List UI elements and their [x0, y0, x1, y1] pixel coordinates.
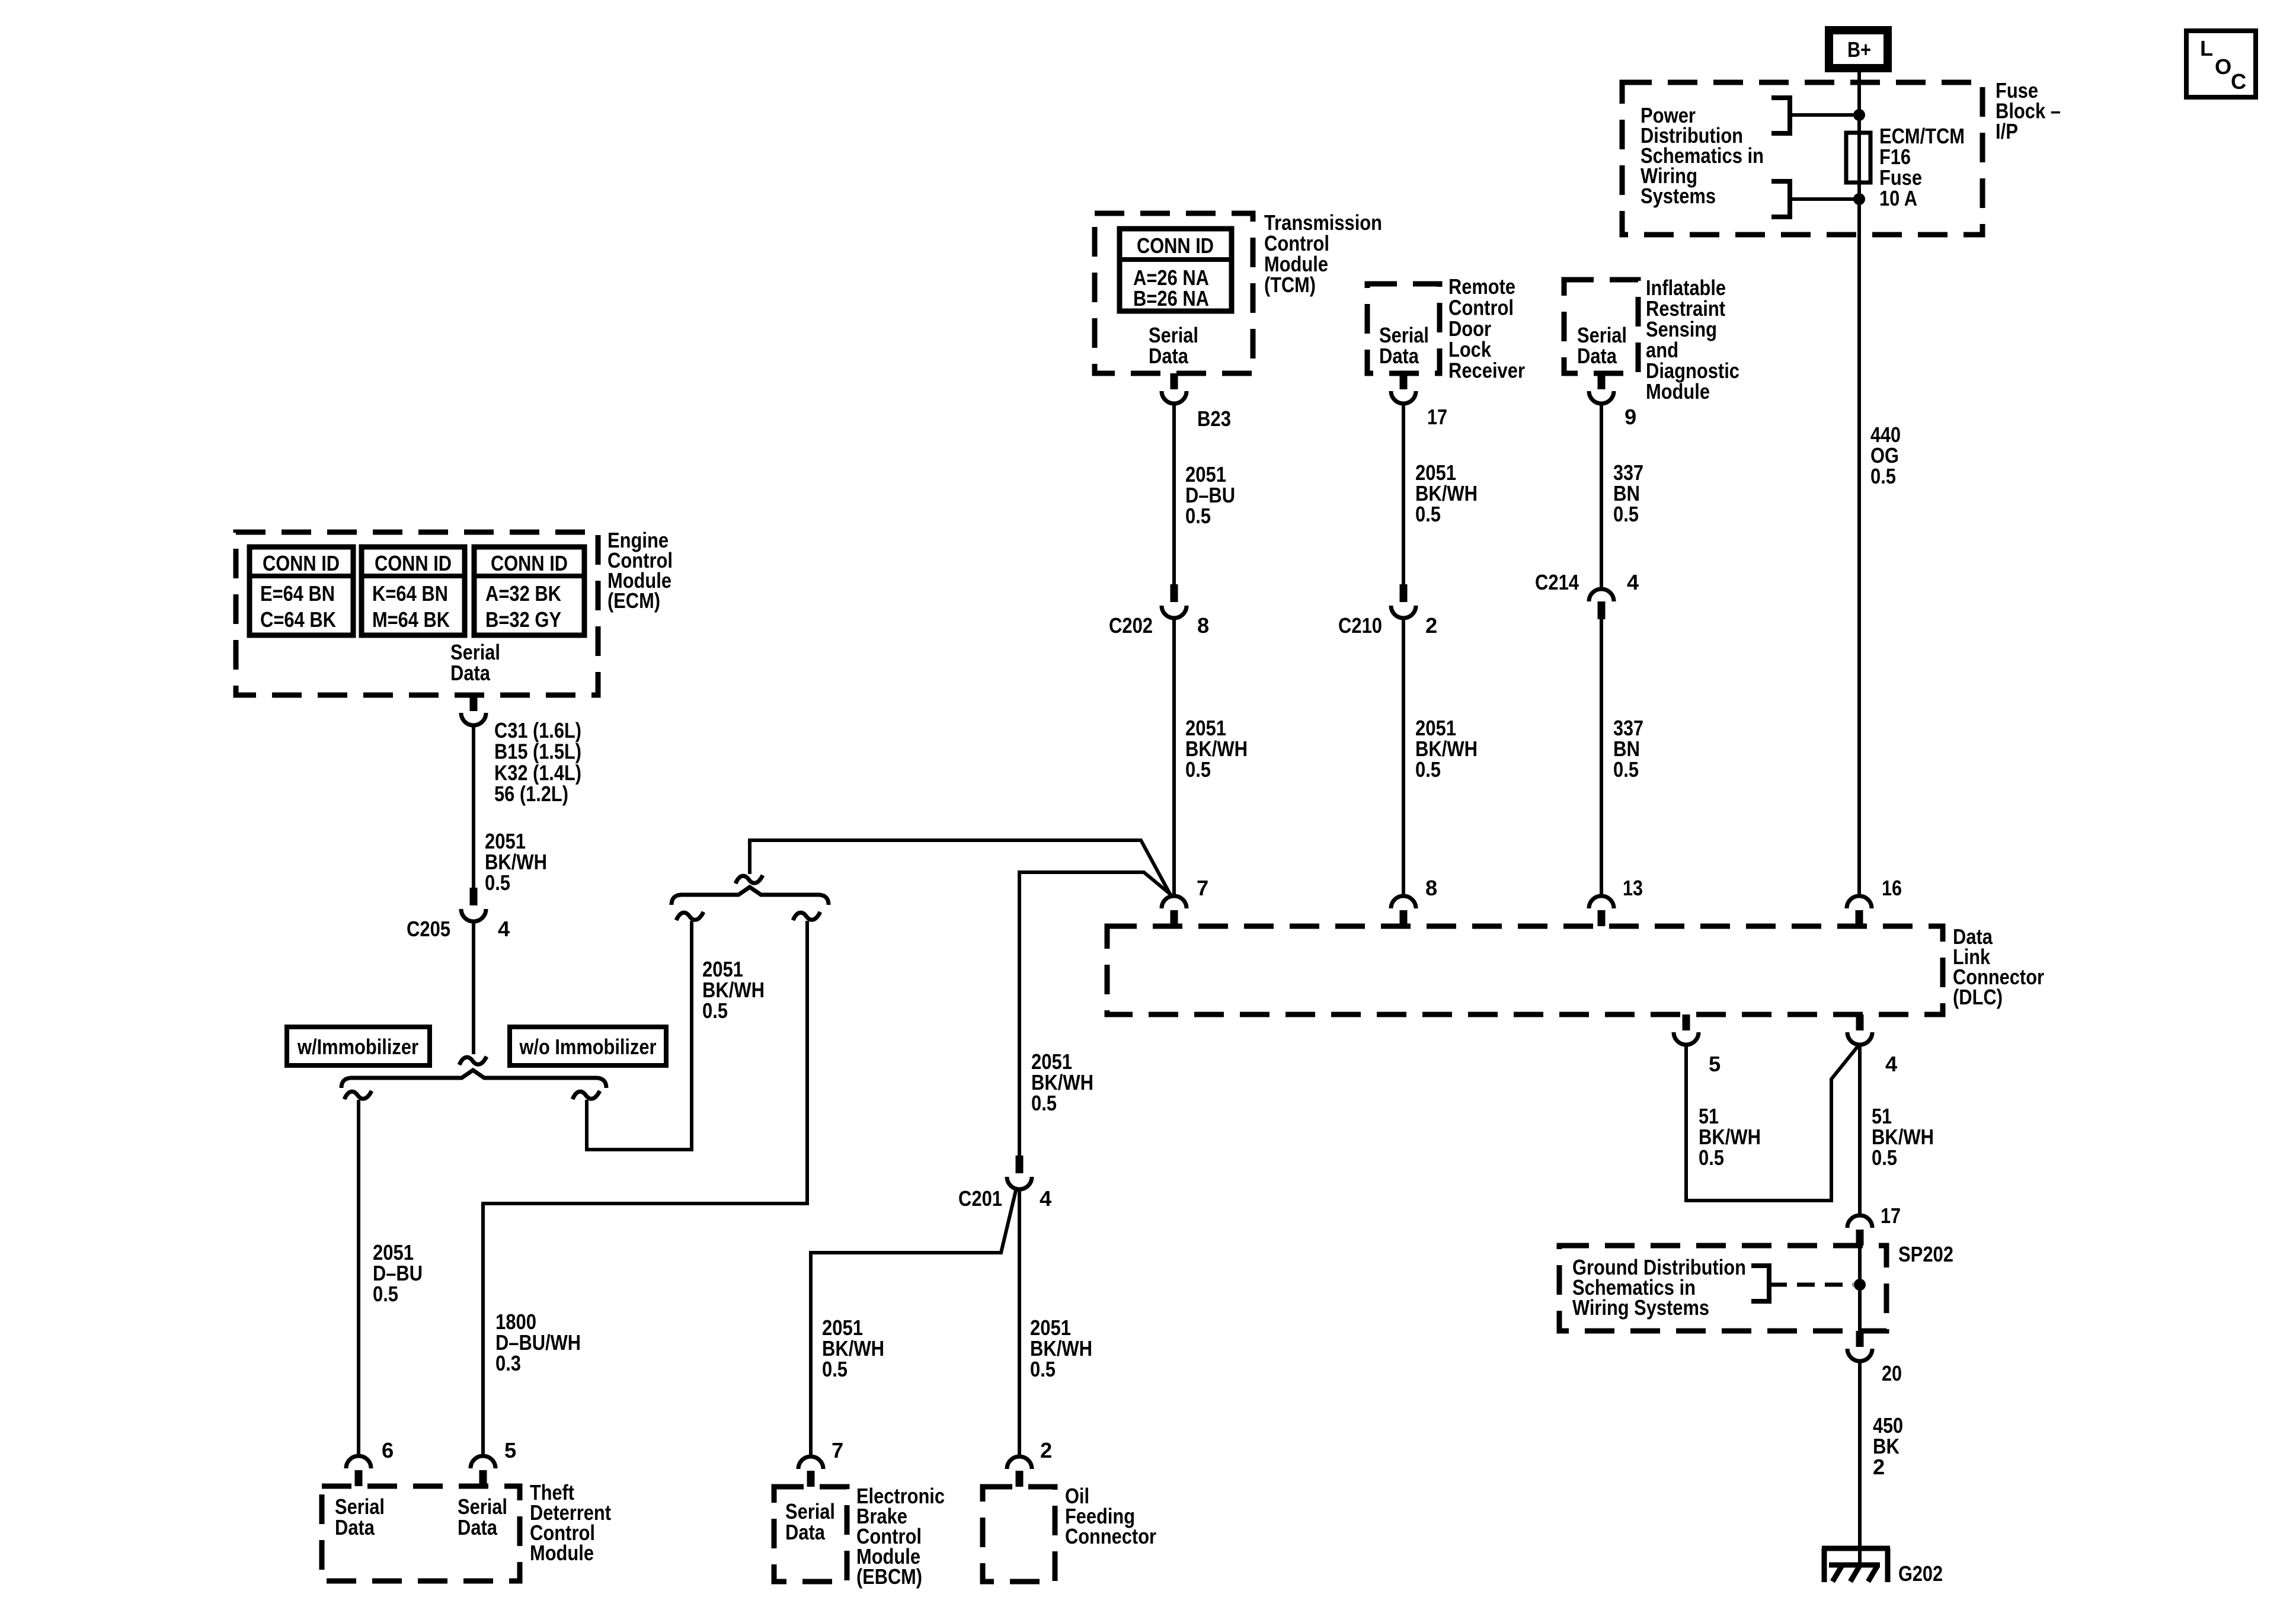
svg-text:7: 7: [832, 1438, 843, 1462]
svg-text:(EBCM): (EBCM): [856, 1564, 922, 1589]
svg-text:Module: Module: [530, 1541, 594, 1565]
svg-text:B=26 NA: B=26 NA: [1133, 286, 1209, 311]
module: Remote Control Door Lock Receiver dashed box: [1367, 284, 1440, 373]
svg-text:13: 13: [1623, 876, 1643, 900]
connector C202 pin 8: [1171, 584, 1178, 602]
module: Engine Control Module (ECM) dashed box: [236, 532, 598, 695]
svg-text:B23: B23: [1197, 406, 1231, 431]
off-page bracket (ground distribution): [1751, 1266, 1769, 1301]
connector C210 pin 2: [1400, 584, 1408, 602]
connector pin 17 into SP202: [1856, 1230, 1864, 1246]
svg-text:A=32 BK: A=32 BK: [485, 581, 561, 606]
svg-text:B=32 GY: B=32 GY: [485, 607, 561, 632]
svg-text:w/o Immobilizer: w/o Immobilizer: [519, 1035, 657, 1059]
ECM CONN ID table K/M: [362, 547, 465, 635]
connector C214 pin 4: [1589, 589, 1614, 601]
DLC pin 16 connector: [1856, 910, 1863, 926]
svg-text:0.5: 0.5: [1030, 1357, 1056, 1381]
svg-text:2: 2: [1873, 1455, 1885, 1479]
svg-text:(ECM): (ECM): [607, 588, 660, 613]
svg-text:C=64 BK: C=64 BK: [260, 607, 336, 632]
svg-text:C205: C205: [407, 917, 450, 941]
svg-text:B+: B+: [1847, 37, 1871, 62]
wire: 51 BK/WH pin 5 loop to pin 4: [1686, 1045, 1859, 1201]
EBCM pin 7 connector: [807, 1471, 815, 1487]
connector C205 pin 4: [470, 888, 478, 905]
splice curl w/Immobilizer branch: [344, 1091, 372, 1099]
power symbol B+: [1829, 30, 1888, 68]
module: ground distribution dashed box (SP202): [1559, 1246, 1886, 1331]
SDM pin 9 connector: [1598, 373, 1606, 389]
wire: 2051 BK/WH from C210 to DLC pin 8: [1402, 618, 1405, 896]
svg-text:4: 4: [1627, 570, 1639, 594]
svg-text:O: O: [2215, 55, 2231, 79]
theft pin 6 connector: [355, 1470, 363, 1486]
wire: bracket to fuse output node: [1790, 197, 1859, 201]
svg-text:5: 5: [1709, 1052, 1721, 1076]
DLC pin 8 connector: [1400, 910, 1408, 926]
svg-text:2: 2: [1040, 1438, 1052, 1462]
svg-text:CONN ID: CONN ID: [263, 551, 340, 575]
svg-text:0.5: 0.5: [373, 1282, 398, 1306]
svg-text:CONN ID: CONN ID: [1137, 233, 1214, 258]
junction node below fuse: [1853, 193, 1865, 205]
svg-text:CONN ID: CONN ID: [375, 551, 452, 575]
svg-text:C: C: [2231, 69, 2246, 94]
svg-text:0.5: 0.5: [1415, 757, 1441, 782]
svg-text:M=64 BK: M=64 BK: [372, 607, 450, 632]
module: Oil Feeding Connector dashed box: [983, 1487, 1055, 1582]
svg-text:C201: C201: [958, 1186, 1002, 1211]
svg-text:6: 6: [382, 1438, 394, 1462]
wire: serial data from C205 down to immobilizer split: [472, 921, 475, 1054]
svg-text:G202: G202: [1898, 1561, 1943, 1586]
svg-text:SP202: SP202: [1898, 1242, 1953, 1266]
module: Electronic Brake Control Module (EBCM) dashed box: [774, 1487, 847, 1582]
wire: 2051 BK/WH from C201 to EBCM pin 7: [811, 1190, 1016, 1456]
svg-text:Data: Data: [335, 1515, 375, 1539]
svg-text:L: L: [2200, 36, 2213, 60]
wire through SP202: [1858, 1246, 1862, 1331]
fuse block - I/P dashed box: [1622, 82, 1982, 235]
svg-text:4: 4: [498, 917, 510, 941]
LOC legend box: [2186, 31, 2256, 97]
svg-text:Module: Module: [1646, 379, 1710, 404]
wire: w/o immobilizer jumper to serial data splice: [587, 921, 692, 1150]
receiver pin 17 connector: [1400, 373, 1408, 389]
dashed link to splice SP202: [1769, 1283, 1853, 1287]
splice curl right branch: [793, 912, 820, 920]
svg-text:17: 17: [1881, 1204, 1901, 1228]
splice curl w/o Immobilizer branch: [573, 1091, 600, 1099]
svg-text:0.3: 0.3: [495, 1351, 521, 1375]
svg-text:8: 8: [1425, 876, 1437, 900]
svg-text:Systems: Systems: [1641, 184, 1716, 208]
svg-text:0.5: 0.5: [1699, 1145, 1724, 1170]
wire: 2051 D-BU from TCM to C202: [1172, 404, 1176, 584]
svg-text:56 (1.2L): 56 (1.2L): [494, 782, 568, 806]
svg-text:4: 4: [1040, 1186, 1051, 1211]
DLC pin 7 connector: [1171, 910, 1178, 926]
svg-text:0.5: 0.5: [1613, 757, 1639, 782]
svg-text:(DLC): (DLC): [1953, 985, 2003, 1009]
wire: B+ feed 440 OG down to DLC pin 16: [1857, 72, 1861, 896]
svg-text:5: 5: [504, 1438, 516, 1462]
svg-text:20: 20: [1882, 1361, 1902, 1385]
svg-text:0.5: 0.5: [1185, 504, 1211, 528]
oil feeding connector pin 2: [1016, 1471, 1024, 1487]
svg-text:8: 8: [1197, 613, 1209, 638]
TCM pin B23 connector: [1171, 373, 1178, 389]
svg-text:C202: C202: [1109, 613, 1153, 638]
svg-text:0.5: 0.5: [1185, 757, 1211, 782]
TCM CONN ID table: [1120, 229, 1232, 311]
svg-text:C214: C214: [1535, 570, 1579, 594]
svg-text:0.5: 0.5: [1415, 502, 1441, 526]
svg-text:0.5: 0.5: [485, 870, 510, 895]
wire: bracket to B+ node: [1790, 113, 1859, 117]
svg-text:w/Immobilizer: w/Immobilizer: [297, 1035, 418, 1059]
wire: 2051 BK/WH from C201 to oil feeding connector pin 2: [1018, 1189, 1021, 1456]
serial data splice brace: [671, 887, 829, 905]
DLC pin 13 connector: [1598, 910, 1606, 926]
DLC pin 4 connector (bottom): [1856, 1014, 1864, 1030]
svg-text:0.5: 0.5: [702, 998, 728, 1023]
svg-text:2: 2: [1425, 613, 1437, 638]
wire: 337 BN from C214 to DLC pin 13: [1600, 619, 1603, 896]
connector pin 20 below SP202: [1856, 1331, 1864, 1347]
wire: splice bus to DLC pin 7: [750, 840, 1172, 897]
fuse ECM/TCM F16 10A: [1846, 133, 1870, 183]
immobilizer split brace: [341, 1070, 606, 1088]
splice curl above brace: [736, 875, 763, 884]
wire: 337 BN from SDM to C214: [1600, 404, 1603, 589]
svg-text:I/P: I/P: [1996, 119, 2018, 143]
svg-text:0.5: 0.5: [1872, 1145, 1897, 1170]
wire: 2051 BK/WH from receiver to C210: [1402, 404, 1405, 584]
theft pin 5 connector: [479, 1470, 487, 1486]
wire: 2051 BK/WH riser to DLC pin 7: [1019, 872, 1172, 1156]
ECM serial data pin connector: [470, 695, 478, 711]
svg-text:10 A: 10 A: [1879, 186, 1917, 210]
svg-text:0.5: 0.5: [1031, 1091, 1057, 1115]
wire: 2051 D-BU to theft deterrent pin 6: [357, 1100, 360, 1456]
svg-text:0.5: 0.5: [822, 1357, 848, 1381]
svg-text:E=64 BN: E=64 BN: [260, 581, 335, 606]
splice curl above immobilizer split: [459, 1057, 487, 1065]
svg-text:0.5: 0.5: [1613, 502, 1639, 526]
splice curl left branch: [676, 912, 703, 920]
svg-text:Data: Data: [1149, 344, 1189, 368]
svg-text:7: 7: [1197, 876, 1208, 900]
junction node SP202: [1854, 1279, 1866, 1291]
svg-text:Connector: Connector: [1065, 1524, 1156, 1548]
svg-text:9: 9: [1625, 405, 1636, 429]
module: Inflatable Restraint Sensing and Diagnostic Module dashed box: [1564, 280, 1638, 373]
svg-text:Data: Data: [785, 1520, 826, 1544]
svg-text:CONN ID: CONN ID: [491, 551, 568, 575]
option box: w/Immobilizer: [287, 1027, 430, 1065]
option box: w/o Immobilizer: [510, 1027, 666, 1065]
off-page bracket (power distribution, upper): [1771, 98, 1790, 133]
svg-text:Data: Data: [1577, 344, 1617, 368]
ground symbol G202: [1822, 1548, 1890, 1582]
ECM CONN ID table E/C: [250, 547, 353, 635]
module: Data Link Connector (DLC) dashed box: [1107, 926, 1943, 1014]
wire: 450 BK to G202: [1858, 1361, 1862, 1565]
wire: 2051 BK/WH from ECM to C205: [472, 725, 475, 888]
connector C201 pin 4: [1016, 1156, 1024, 1173]
svg-text:C210: C210: [1338, 613, 1382, 638]
svg-text:17: 17: [1427, 405, 1447, 429]
svg-text:K=64 BN: K=64 BN: [372, 581, 448, 606]
DLC pin 5 connector (bottom): [1683, 1014, 1690, 1030]
junction node above fuse: [1853, 109, 1865, 121]
off-page bracket (power distribution, lower): [1771, 181, 1790, 217]
wire: 2051 BK/WH from C202 to DLC pin 7: [1172, 618, 1176, 896]
module: Theft Deterrent Control Module dashed box: [322, 1486, 520, 1581]
wire: 51 BK/WH pin 4 down to SP202: [1858, 1045, 1862, 1216]
svg-text:(TCM): (TCM): [1264, 273, 1316, 297]
svg-text:Data: Data: [458, 1515, 498, 1539]
svg-text:4: 4: [1885, 1052, 1897, 1076]
svg-text:Receiver: Receiver: [1448, 359, 1525, 383]
module: Transmission Control Module (TCM) dashed box: [1095, 213, 1253, 373]
svg-text:0.5: 0.5: [1870, 464, 1896, 488]
svg-text:Wiring Systems: Wiring Systems: [1572, 1295, 1709, 1320]
wire: 1800 D-BU/WH to theft deterrent pin 5: [483, 921, 807, 1456]
svg-text:Data: Data: [450, 661, 491, 685]
ECM CONN ID table A/B: [474, 547, 584, 635]
svg-text:Data: Data: [1379, 344, 1419, 368]
svg-text:16: 16: [1882, 876, 1902, 900]
